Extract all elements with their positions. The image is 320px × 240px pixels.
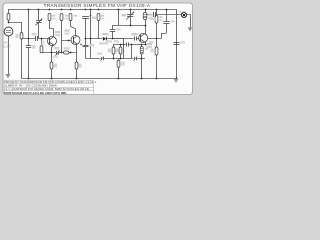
wire VCC top rail: [8, 9, 177, 78]
resistor R4: [60, 14, 63, 21]
label R12: [54, 64, 57, 68]
trimmer capacitor C2 emitter bus: [55, 50, 60, 56]
notes table: [3, 81, 93, 95]
wire emitter bus y52.8: [52, 52, 77, 54]
label L1: [149, 14, 153, 16]
label R6: [64, 47, 70, 49]
capacitor C3 electrolytic rail: [82, 17, 89, 19]
antenna connector J1: [181, 12, 186, 17]
wire antenna line y14.3: [147, 14, 181, 16]
wire bottom ground rail: [21, 39, 176, 79]
wire x118.6 resistor legs: [118, 59, 120, 78]
wire x156 column: [156, 9, 158, 78]
label MIC ELET: [3, 41, 11, 49]
label C2: [54, 47, 59, 49]
wire x98 drop: [98, 21, 100, 39]
capacitor C12 x176 decoupling: [173, 43, 179, 45]
wire x120.4 resistor legs: [120, 44, 122, 58]
wire x90.7 drop: [90, 9, 92, 59]
wire x112 branch: [112, 26, 114, 39]
outer background: [0, 0, 196, 100]
wire mic to ground: [8, 36, 10, 74]
resistor R10 x156 top: [155, 16, 158, 24]
plus C4: [80, 43, 82, 45]
resistor R6 horizontal: [64, 51, 69, 54]
label R2: [16, 34, 19, 38]
inductor L1: [143, 13, 147, 20]
svg-text:ELET.: ELET.: [3, 44, 11, 48]
wire x41 branch: [41, 39, 52, 53]
resistor R11 x156 bottom: [155, 47, 158, 55]
wire x131 down: [131, 44, 133, 58]
wire trimmer drop x38.8: [38, 9, 40, 39]
wire emitter bus2 y58.6: [104, 58, 145, 60]
capacitor C1 series: [36, 36, 38, 41]
label C7: [97, 53, 102, 55]
ground mic arrow: [5, 74, 10, 78]
label R13: [79, 64, 82, 68]
resistor R8 x113: [112, 47, 115, 54]
label R15: [122, 62, 125, 66]
wire antenna drop: [187, 14, 191, 28]
panel: [3, 3, 193, 95]
resistor R15 x118.6 lower: [117, 60, 120, 67]
wire Q2 collector: [71, 21, 76, 36]
label R3: [52, 15, 55, 17]
capacitor C11 x166.5: [163, 22, 169, 24]
plus C3: [90, 15, 92, 17]
label C1: [32, 33, 37, 35]
capacitor C13 to ground: [26, 46, 31, 48]
microphone MIC: [4, 27, 13, 36]
resistor R14 x41: [40, 46, 43, 53]
resistor R7: [97, 14, 100, 21]
wire audio bus y38.8: [85, 39, 123, 45]
transistor Q2: [71, 36, 80, 45]
wire Q1 emitter to ground: [52, 45, 54, 78]
wire mic tap: [8, 22, 22, 33]
svg-text:MONTAGEM EM PLACA DE CIRCUITO: MONTAGEM EM PLACA DE CIRCUITO IMP.: [4, 91, 67, 95]
trimmer capacitor CV: [126, 12, 134, 20]
resistor R2: [20, 33, 23, 40]
wire audio node: [21, 38, 50, 40]
capacitor C6 series y44.3: [127, 43, 129, 47]
resistor R13 Q2 emitter: [75, 62, 78, 69]
wire Q3 output zigzag: [148, 9, 167, 39]
label Q2: [65, 30, 70, 32]
wire tank node y25.8: [112, 25, 145, 27]
label R10: [159, 16, 162, 18]
label R7: [101, 15, 104, 17]
trimmer capacitor CT1: [35, 19, 42, 26]
label R9: [116, 49, 119, 53]
diode D1: [103, 37, 107, 41]
label C9: [132, 33, 138, 35]
label C3: [92, 17, 96, 19]
label C5: [117, 28, 121, 30]
capacitor C8 series bus2: [133, 56, 137, 61]
junction dots: [8, 9, 178, 80]
capacitor C5 x112: [110, 30, 116, 32]
wire x85.3 branch: [85, 18, 100, 58]
label Q1: [55, 31, 60, 33]
label C11: [171, 20, 175, 22]
wire Q1 collector: [49, 21, 54, 37]
transistor Q3: [139, 34, 148, 43]
wire x28.6 cap branch: [28, 9, 30, 78]
label C13: [32, 45, 35, 49]
label Q3: [147, 43, 153, 45]
label C4: [90, 44, 95, 46]
resistor R12 Q1 emitter: [50, 62, 53, 69]
wire y44.3 node: [113, 42, 146, 47]
label R8: [108, 49, 111, 53]
label C10: [150, 18, 156, 20]
capacitor C10 antenna series: [154, 12, 156, 17]
wire Q3 base coupling: [112, 38, 140, 40]
inductor L2 x141.7: [140, 47, 143, 55]
resistor R5: [69, 14, 72, 21]
svg-text:TRANSMISSOR SIMPLES FM VHF DX1: TRANSMISSOR SIMPLES FM VHF DX105-A: [44, 3, 151, 8]
label CV: [122, 14, 127, 16]
wire L2 legs: [141, 44, 143, 78]
label R11: [151, 49, 154, 53]
capacitor C7 series bus2: [100, 56, 104, 61]
svg-text:ANT.: ANT.: [180, 10, 187, 14]
wire x118.5 drop: [118, 9, 120, 26]
wire Q2 base: [62, 21, 73, 53]
wire x176 cap gap: [176, 42, 178, 44]
label L2: [145, 48, 149, 50]
label C12: [181, 41, 186, 43]
wire x113 resistor bottom: [113, 54, 115, 59]
capacitor C4 electrolytic x85.3: [83, 46, 89, 47]
label R14: [42, 41, 45, 43]
wire x123.5 down: [123, 44, 125, 58]
capacitor C9 Q3 base series: [135, 37, 137, 41]
transistor Q1: [48, 37, 57, 46]
wire trimmer CV leg: [130, 9, 132, 26]
label D1: [103, 33, 109, 35]
resistor R1 mic pull-up: [7, 14, 10, 21]
resistor R3 Q1 collector load: [48, 14, 51, 21]
wire L1 leg: [145, 9, 147, 34]
antenna arrow: [188, 28, 193, 32]
wire Q2 emitter to ground: [76, 44, 78, 78]
label R5: [74, 15, 77, 17]
resistor R9 x120.4: [119, 47, 122, 54]
ground rail arrow: [174, 79, 179, 83]
label R4: [65, 15, 68, 17]
